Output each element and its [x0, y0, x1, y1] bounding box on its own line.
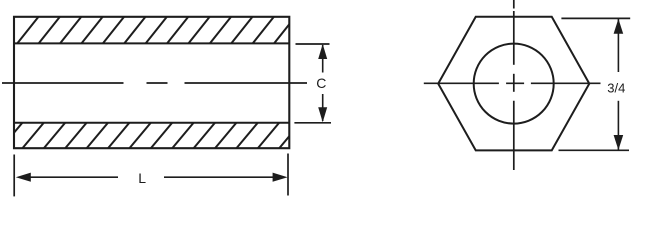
- dimension 3/4 bottom extension line: [559, 149, 630, 151]
- spacer body outline (side section view): [14, 17, 289, 148]
- horizontal centerline of end view: [424, 82, 601, 84]
- hex body outline (end view): [438, 17, 589, 151]
- svg-text:3/4: 3/4: [607, 81, 625, 96]
- bore bottom line: [14, 122, 289, 124]
- dimension L left extension line: [13, 155, 15, 197]
- dimension C top extension line: [296, 43, 330, 45]
- dimension 3/4 line with arrows: [614, 19, 624, 150]
- vertical centerline of end view: [513, 0, 515, 170]
- dimension L line with arrows: [16, 173, 288, 182]
- top wall hatching: [16, 16, 296, 45]
- bore circle: [474, 44, 554, 124]
- svg-text:L: L: [138, 170, 146, 186]
- dimension C line with arrows: [318, 44, 327, 122]
- bore top line: [14, 42, 289, 44]
- dimension L right extension line: [287, 154, 289, 196]
- dimension C bottom extension line: [294, 122, 331, 124]
- dimension 3/4 top extension line: [561, 17, 630, 19]
- bottom wall hatching: [0, 122, 301, 150]
- svg-text:C: C: [316, 75, 326, 91]
- centerline of side view (long-short-long): [2, 82, 307, 84]
